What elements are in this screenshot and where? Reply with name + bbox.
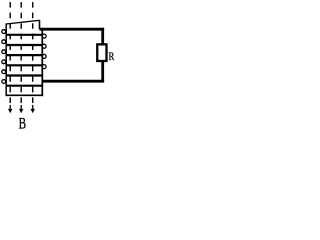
arrow 2 (B direction, down) xyxy=(19,105,23,113)
coil turn line 5 xyxy=(6,74,44,76)
coil turn line 1 xyxy=(6,34,44,36)
coil right loop 1 xyxy=(42,34,46,38)
coil top slanted line xyxy=(6,20,39,24)
coil left loop 6 xyxy=(2,80,6,84)
wire top (coil to resistor) xyxy=(40,28,105,31)
circuit schematic: coil in magnetic field B connected to resistor R xyxy=(0,0,115,130)
coil top-right vertical xyxy=(39,20,41,29)
coil left edge xyxy=(5,23,7,96)
coil right edge xyxy=(41,29,43,96)
resistor R box xyxy=(97,44,106,61)
coil right loop 2 xyxy=(42,44,46,48)
wire right lower xyxy=(101,62,104,83)
coil turn line 4 xyxy=(6,64,44,66)
coil left loop 2 xyxy=(2,40,6,44)
field line 2 (dashed, middle) xyxy=(20,2,22,104)
coil left loop 5 xyxy=(2,70,6,74)
svg-text:B: B xyxy=(19,115,26,130)
svg-text:R: R xyxy=(109,51,115,64)
coil turn line 3 xyxy=(6,54,44,56)
coil right loop 3 xyxy=(42,54,46,58)
arrow 1 (B direction, down) xyxy=(8,105,12,113)
field line 3 (dashed, right) xyxy=(32,2,34,104)
arrow 3 (B direction, down) xyxy=(31,105,35,113)
coil left loop 4 xyxy=(2,60,6,64)
coil right loop 4 xyxy=(42,65,46,69)
field line 1 (dashed, left) xyxy=(9,2,11,104)
coil left loop 3 xyxy=(2,50,6,54)
wire right upper xyxy=(101,28,104,44)
coil L : outline xyxy=(2,20,46,96)
coil turn line 6 xyxy=(6,85,44,87)
coil bottom line xyxy=(6,94,44,96)
wire bottom (resistor back to coil) xyxy=(42,80,104,83)
coil turn line 2 xyxy=(6,44,44,46)
coil left loop 1 xyxy=(2,30,6,34)
